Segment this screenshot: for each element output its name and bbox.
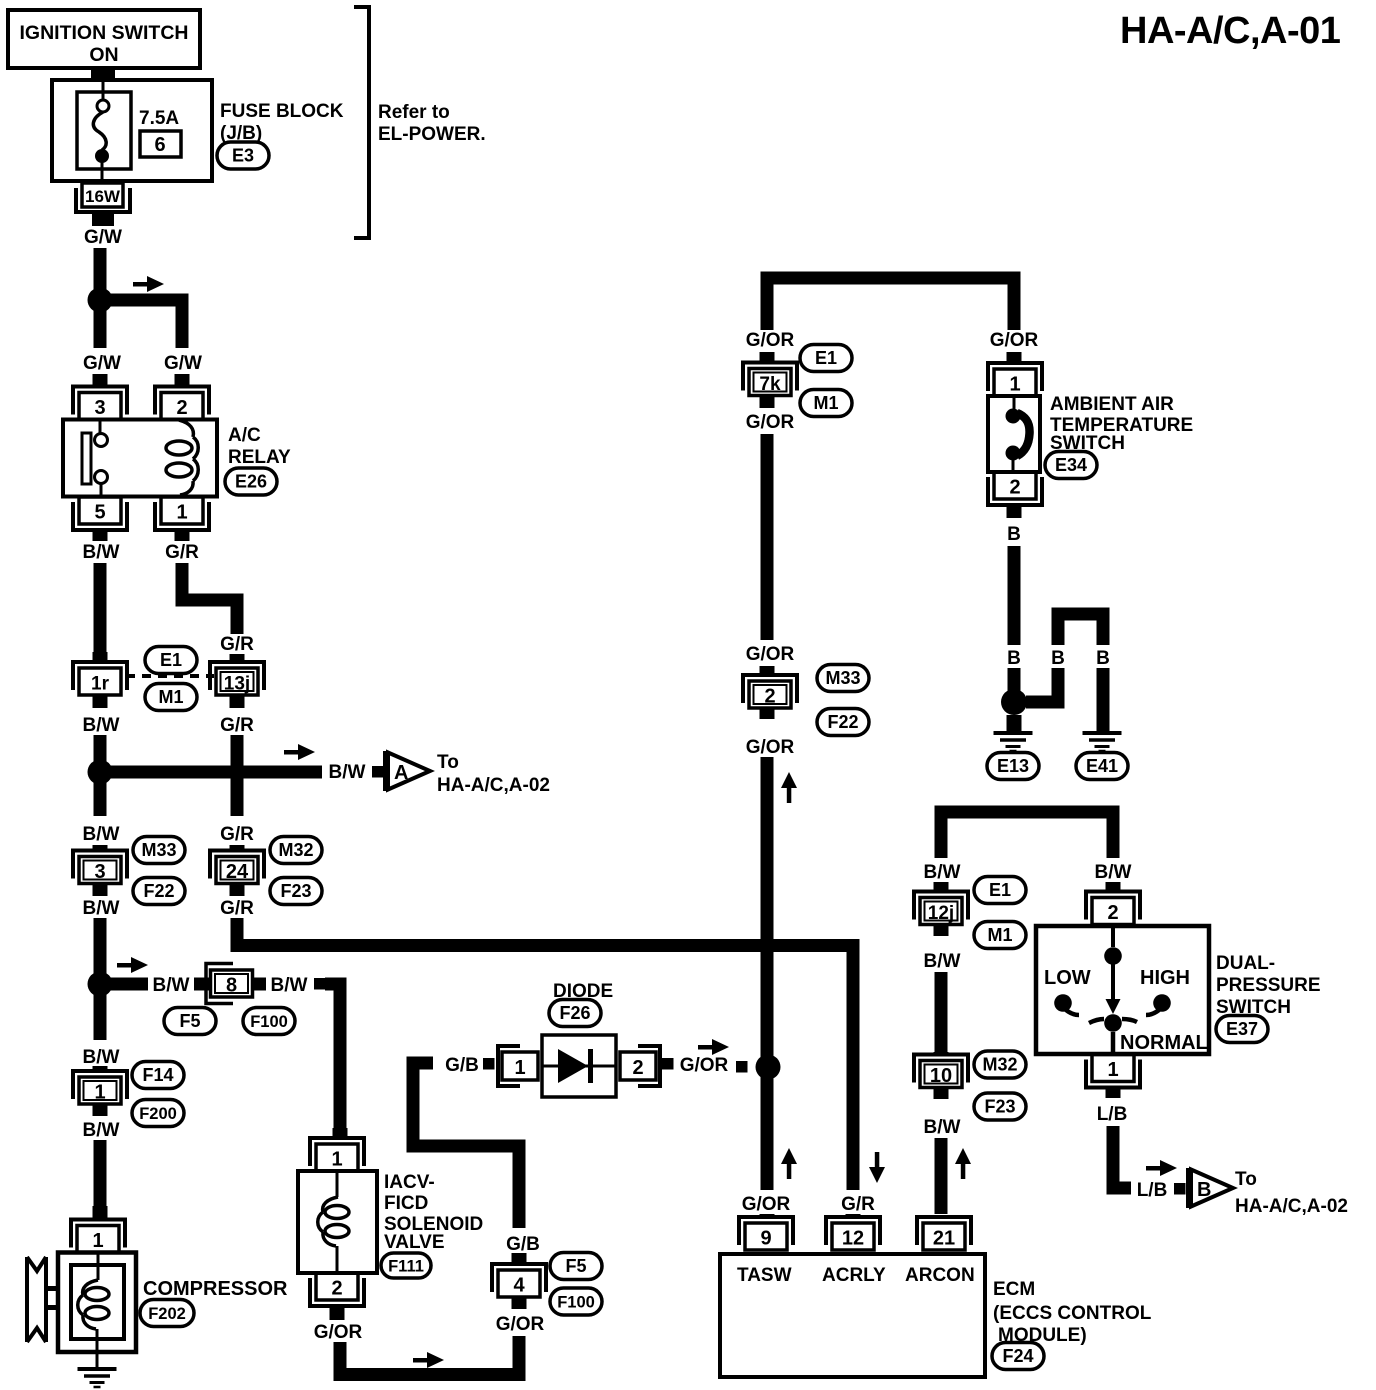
svg-text:1: 1: [176, 502, 187, 524]
svg-text:G/OR: G/OR: [990, 330, 1039, 351]
svg-text:B: B: [1007, 524, 1021, 545]
svg-text:G/OR: G/OR: [746, 412, 795, 433]
svg-text:8: 8: [226, 975, 237, 997]
svg-text:B/W: B/W: [83, 715, 120, 736]
svg-text:F26: F26: [559, 1003, 590, 1023]
svg-text:G/B: G/B: [445, 1055, 479, 1076]
svg-text:B/W: B/W: [329, 762, 366, 783]
svg-text:HA-A/C,A-01: HA-A/C,A-01: [1120, 10, 1341, 52]
svg-text:M32: M32: [982, 1055, 1017, 1075]
svg-text:B/W: B/W: [83, 542, 120, 563]
svg-text:L/B: L/B: [1097, 1104, 1128, 1125]
svg-text:FUSE BLOCK: FUSE BLOCK: [220, 101, 344, 122]
svg-text:M1: M1: [813, 393, 838, 413]
svg-text:M32: M32: [278, 840, 313, 860]
svg-text:E34: E34: [1055, 455, 1087, 475]
svg-text:F22: F22: [143, 881, 174, 901]
svg-text:B/W: B/W: [1095, 862, 1132, 883]
svg-text:2: 2: [1107, 902, 1118, 924]
svg-text:To: To: [1235, 1169, 1257, 1190]
svg-text:G/R: G/R: [220, 715, 254, 736]
svg-text:G/W: G/W: [83, 353, 121, 374]
svg-text:21: 21: [933, 1228, 955, 1250]
svg-text:F14: F14: [142, 1065, 173, 1085]
svg-text:2: 2: [331, 1278, 342, 1300]
svg-text:E1: E1: [160, 650, 182, 670]
svg-text:E1: E1: [989, 880, 1011, 900]
svg-text:5: 5: [94, 502, 105, 524]
svg-text:To: To: [437, 752, 459, 773]
svg-text:AMBIENT AIR: AMBIENT AIR: [1050, 394, 1174, 415]
svg-text:1: 1: [1009, 374, 1020, 396]
svg-text:NORMAL: NORMAL: [1120, 1032, 1208, 1054]
svg-text:A: A: [394, 762, 408, 784]
svg-text:M33: M33: [141, 840, 176, 860]
svg-text:B/W: B/W: [83, 898, 120, 919]
svg-text:F23: F23: [280, 881, 311, 901]
svg-text:B/W: B/W: [924, 1117, 961, 1138]
svg-text:A/C: A/C: [228, 425, 261, 446]
svg-text:1: 1: [92, 1230, 103, 1252]
svg-text:G/OR: G/OR: [746, 737, 795, 758]
svg-text:B/W: B/W: [924, 862, 961, 883]
svg-text:4: 4: [513, 1275, 525, 1297]
svg-text:ON: ON: [89, 44, 118, 66]
svg-text:1r: 1r: [91, 674, 110, 695]
svg-text:24: 24: [226, 861, 249, 883]
svg-text:COMPRESSOR: COMPRESSOR: [143, 1278, 288, 1300]
svg-text:DUAL-: DUAL-: [1216, 953, 1275, 974]
svg-text:M1: M1: [158, 687, 183, 707]
svg-text:M33: M33: [825, 668, 860, 688]
svg-text:E41: E41: [1086, 756, 1118, 776]
svg-text:E37: E37: [1226, 1019, 1258, 1039]
svg-text:TASW: TASW: [737, 1265, 792, 1286]
svg-text:7.5A: 7.5A: [139, 108, 179, 129]
svg-text:F23: F23: [984, 1097, 1015, 1117]
svg-text:B/W: B/W: [271, 975, 308, 996]
svg-text:3: 3: [94, 861, 105, 883]
svg-text:E13: E13: [997, 756, 1029, 776]
svg-text:F202: F202: [148, 1305, 186, 1323]
svg-text:E1: E1: [815, 348, 837, 368]
svg-text:RELAY: RELAY: [228, 447, 291, 468]
svg-text:G/OR: G/OR: [680, 1055, 729, 1076]
svg-text:ECM: ECM: [993, 1279, 1035, 1300]
svg-text:M1: M1: [987, 925, 1012, 945]
svg-text:G/B: G/B: [506, 1234, 540, 1255]
svg-text:F5: F5: [179, 1011, 200, 1031]
svg-text:9: 9: [760, 1228, 771, 1250]
svg-text:HA-A/C,A-02: HA-A/C,A-02: [437, 775, 550, 796]
svg-text:F200: F200: [139, 1105, 177, 1123]
svg-text:6: 6: [154, 134, 165, 156]
svg-text:B/W: B/W: [153, 975, 190, 996]
svg-text:HA-A/C,A-02: HA-A/C,A-02: [1235, 1196, 1348, 1217]
svg-text:G/OR: G/OR: [742, 1194, 791, 1215]
svg-text:PRESSURE: PRESSURE: [1216, 975, 1321, 996]
svg-text:B/W: B/W: [83, 824, 120, 845]
svg-text:13j: 13j: [224, 674, 250, 695]
svg-text:G/OR: G/OR: [314, 1322, 363, 1343]
svg-text:ARCON: ARCON: [905, 1265, 975, 1286]
svg-text:(ECCS CONTROL: (ECCS CONTROL: [993, 1303, 1152, 1324]
svg-text:12j: 12j: [928, 903, 954, 924]
svg-text:G/W: G/W: [164, 353, 202, 374]
svg-text:B/W: B/W: [924, 951, 961, 972]
svg-text:HIGH: HIGH: [1140, 967, 1190, 989]
svg-text:G/R: G/R: [165, 542, 199, 563]
svg-text:B: B: [1051, 648, 1065, 669]
svg-text:3: 3: [94, 397, 105, 419]
svg-text:EL-POWER.: EL-POWER.: [378, 124, 486, 145]
svg-text:7k: 7k: [759, 374, 781, 395]
svg-text:10: 10: [930, 1065, 952, 1087]
svg-text:G/R: G/R: [220, 634, 254, 655]
svg-text:E3: E3: [232, 146, 254, 166]
svg-text:B: B: [1197, 1179, 1211, 1201]
svg-text:IGNITION SWITCH: IGNITION SWITCH: [20, 22, 189, 44]
svg-text:F100: F100: [557, 1294, 595, 1312]
svg-text:16W: 16W: [85, 187, 121, 206]
svg-text:F100: F100: [250, 1013, 288, 1031]
svg-text:G/OR: G/OR: [746, 330, 795, 351]
svg-text:12: 12: [842, 1228, 864, 1250]
svg-text:2: 2: [764, 686, 775, 708]
svg-text:B/W: B/W: [83, 1120, 120, 1141]
svg-text:G/OR: G/OR: [496, 1314, 545, 1335]
svg-text:F24: F24: [1002, 1346, 1033, 1366]
svg-text:2: 2: [176, 397, 187, 419]
svg-text:G/R: G/R: [841, 1194, 875, 1215]
svg-text:VALVE: VALVE: [384, 1232, 445, 1253]
svg-text:FICD: FICD: [384, 1193, 428, 1214]
svg-text:LOW: LOW: [1044, 967, 1091, 989]
svg-text:1: 1: [331, 1149, 342, 1171]
svg-text:B: B: [1096, 648, 1110, 669]
svg-text:B: B: [1007, 648, 1021, 669]
svg-text:F111: F111: [388, 1258, 424, 1276]
svg-text:Refer to: Refer to: [378, 102, 450, 123]
svg-text:2: 2: [632, 1057, 643, 1079]
svg-text:F5: F5: [565, 1256, 586, 1276]
svg-text:ACRLY: ACRLY: [822, 1265, 886, 1286]
svg-text:E26: E26: [235, 472, 267, 492]
svg-text:L/B: L/B: [1137, 1180, 1168, 1201]
svg-text:1: 1: [1107, 1059, 1118, 1081]
svg-text:G/R: G/R: [220, 898, 254, 919]
svg-text:F22: F22: [827, 712, 858, 732]
svg-text:B/W: B/W: [83, 1047, 120, 1068]
svg-text:G/R: G/R: [220, 824, 254, 845]
svg-text:G/W: G/W: [84, 227, 122, 248]
svg-text:G/OR: G/OR: [746, 644, 795, 665]
svg-text:IACV-: IACV-: [384, 1172, 435, 1193]
svg-text:2: 2: [1009, 477, 1020, 499]
svg-text:1: 1: [514, 1057, 525, 1079]
svg-text:1: 1: [94, 1082, 105, 1104]
